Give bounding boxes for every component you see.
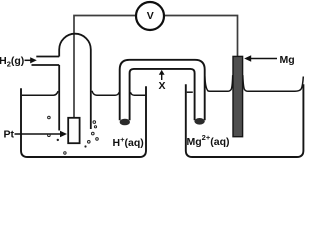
salt bridge inner outline xyxy=(130,69,195,120)
Pt pointer arrow xyxy=(15,133,62,135)
svg-text:Mg: Mg xyxy=(280,54,295,66)
svg-text:H2(g): H2(g) xyxy=(0,55,24,69)
svg-text:X: X xyxy=(158,80,165,92)
solution level (left beaker) xyxy=(22,91,58,95)
salt bridge outer outline xyxy=(120,60,205,121)
left beaker xyxy=(21,86,146,157)
salt bridge left arm opening (plug) xyxy=(120,119,130,126)
solution level right of Mg bar xyxy=(243,75,303,91)
hydrogen electrode glass tube (dome + right wall) xyxy=(59,34,91,129)
right beaker xyxy=(186,84,304,157)
Mg pointer arrow xyxy=(250,58,278,60)
Pt electrode xyxy=(68,118,79,143)
wire from voltmeter to Mg electrode (right lead) xyxy=(164,16,238,58)
gas inlet arm bottom xyxy=(32,64,60,66)
svg-text:H+(aq): H+(aq) xyxy=(113,135,144,149)
solution level left of salt-bridge arm (right beaker) xyxy=(187,91,193,93)
gas inlet arm top xyxy=(36,56,59,58)
solution level between arm and Mg bar xyxy=(205,75,233,91)
wire from voltmeter to Pt electrode (left lead) xyxy=(74,16,137,119)
salt bridge right arm opening (plug) xyxy=(194,118,204,125)
tube left wall below gas inlet xyxy=(58,65,60,131)
solution level right of salt-bridge arm xyxy=(130,92,145,95)
H2 inlet arrow xyxy=(25,59,32,61)
svg-text:V: V xyxy=(147,10,154,22)
Mg electrode bar xyxy=(233,56,243,136)
svg-text:Pt: Pt xyxy=(4,129,15,141)
X pointer arrow (salt bridge) xyxy=(161,74,163,80)
voltmeter V xyxy=(136,2,164,30)
solution level right of tube xyxy=(92,91,119,95)
bubbles around Pt electrode xyxy=(48,116,99,154)
